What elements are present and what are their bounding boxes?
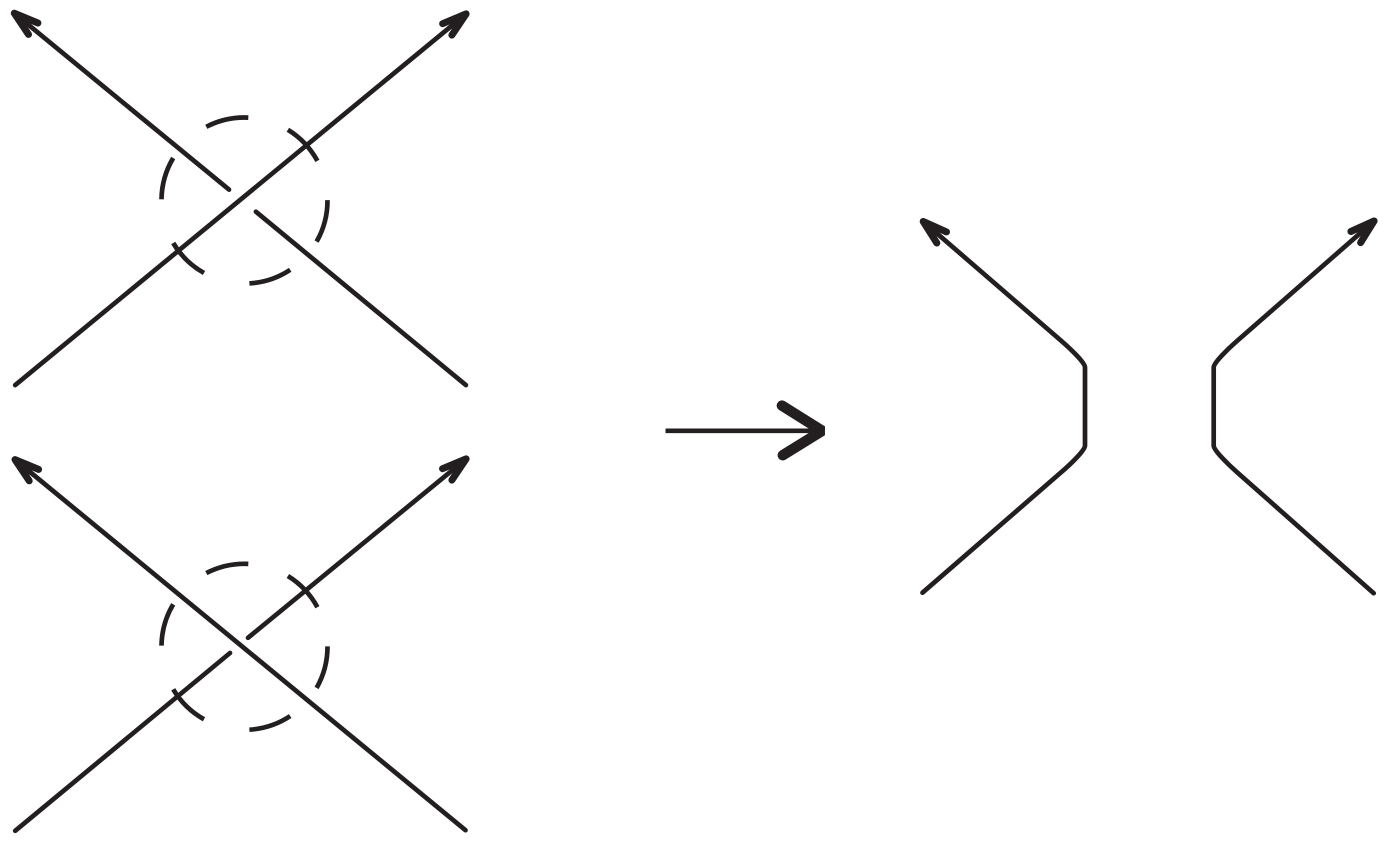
arrowhead top crossing NW: [14, 13, 38, 34]
dashed circle arc 2 (top crossing): [206, 118, 248, 127]
smoothed left strand: [922, 221, 1085, 593]
under strand lower segment (top crossing): [256, 212, 466, 385]
dashed circle arc 4 (top crossing): [173, 243, 204, 273]
over strand (bottom crossing), SE to NW: [17, 462, 465, 831]
dashed circle arc 2 (bottom crossing): [206, 564, 248, 573]
arrowhead smoothing left: [923, 222, 946, 244]
over strand (top crossing), SW to NE: [15, 16, 464, 385]
arrowhead bottom crossing NW: [15, 460, 39, 481]
dashed circle arc 1 (top crossing): [288, 130, 318, 161]
arrowhead top crossing NE: [443, 14, 467, 35]
dashed circle arc 6 (top crossing): [317, 200, 328, 242]
dashed circle arc 3 (bottom crossing): [162, 604, 174, 645]
smoothed right strand: [1214, 220, 1375, 593]
under strand upper segment (top crossing): [17, 15, 229, 190]
dashed circle arc 5 (top crossing): [249, 270, 290, 284]
arrowhead smoothing right: [1351, 221, 1374, 243]
under strand upper segment (bottom crossing): [248, 461, 464, 638]
dashed circle arc 3 (top crossing): [162, 158, 174, 199]
implication arrow head: [782, 406, 822, 456]
arrowhead bottom crossing NE: [443, 459, 467, 480]
dashed circle arc 1 (bottom crossing): [288, 576, 318, 607]
dashed circle arc 6 (bottom crossing): [317, 646, 328, 688]
implication arrow shaft: [666, 428, 821, 433]
dashed circle arc 5 (bottom crossing): [249, 716, 290, 730]
dashed circle arc 4 (bottom crossing): [173, 689, 204, 719]
under strand lower segment (bottom crossing): [15, 653, 230, 831]
